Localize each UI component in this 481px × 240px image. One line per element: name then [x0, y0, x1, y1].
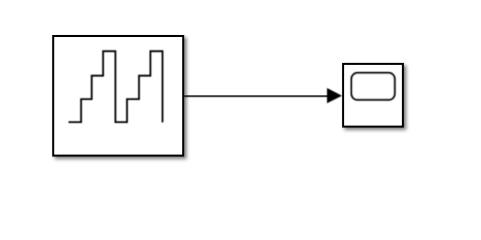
staircase waveform icon inside source block — [69, 51, 163, 122]
scope screen (rounded rect icon) — [352, 73, 395, 100]
wire: signal line from source to scope — [184, 95, 330, 97]
block: Repeating Sequence Stair (source block body) — [53, 36, 183, 156]
block: Scope (body) — [343, 64, 403, 127]
arrowhead at scope input — [327, 88, 342, 103]
